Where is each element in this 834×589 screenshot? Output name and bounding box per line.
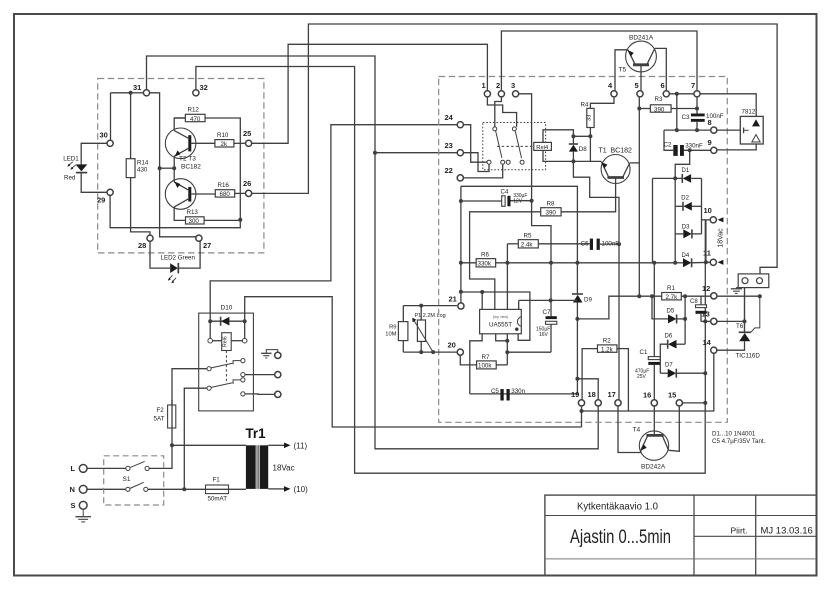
- wire R4 bottom to emitter rail: [589, 128, 591, 162]
- svg-text:R16: R16: [218, 182, 230, 189]
- wire 19 down to relay wire: [581, 403, 583, 427]
- wire secondary bottom arrow (10): [268, 488, 284, 490]
- resistor R14 430: [130, 93, 132, 159]
- svg-text:27: 27: [203, 241, 211, 250]
- svg-text:T5: T5: [619, 67, 627, 74]
- relay output terminal 1: [275, 352, 281, 358]
- svg-text:R14: R14: [137, 160, 149, 167]
- svg-text:22: 22: [445, 166, 453, 175]
- transistor T1 BC182: [601, 155, 630, 184]
- svg-text:2: 2: [496, 81, 500, 90]
- svg-text:2.4k: 2.4k: [521, 242, 534, 249]
- svg-text:330nF: 330nF: [685, 143, 703, 150]
- terminal 25: [246, 140, 252, 146]
- svg-text:28: 28: [138, 241, 146, 250]
- wire 20 to R7: [460, 355, 476, 365]
- wire C2 right to 9: [684, 149, 711, 151]
- capacitor C1 470uF: [653, 263, 655, 357]
- wire R8 left staircase to 555: [470, 212, 541, 310]
- relay mechanical link dashed: [225, 351, 227, 382]
- svg-text:5: 5: [635, 81, 639, 90]
- diode ladder D1: [653, 177, 683, 179]
- svg-text:50mAT: 50mAT: [208, 496, 228, 503]
- wire 8 row: [664, 129, 714, 131]
- svg-text:C6: C6: [581, 240, 589, 247]
- wire terminal 24 to relay D10 node: [210, 125, 460, 322]
- wire contact A2 to relay terminal 2: [245, 374, 275, 376]
- terminal 30: [107, 140, 113, 146]
- svg-text:(10): (10): [294, 485, 309, 494]
- diode D8: [572, 136, 574, 144]
- svg-text:12: 12: [702, 284, 710, 293]
- LED1 Red: [81, 143, 110, 164]
- svg-text:L: L: [71, 464, 76, 473]
- capacitor C7 150uF: [546, 316, 557, 319]
- relay switch B: [207, 386, 211, 390]
- wire L to switch: [87, 467, 126, 469]
- emitter node staircase to C6: [573, 161, 619, 244]
- node 6 branch dot: [675, 92, 679, 96]
- svg-text:18: 18: [588, 390, 596, 399]
- terminal 22: [457, 175, 463, 181]
- wire R12 left to T2 collector: [174, 117, 185, 119]
- ground at connector: [736, 288, 741, 289]
- wire 31 junction to R14 and node 30: [131, 92, 147, 94]
- terminal 29: [107, 189, 113, 195]
- regulator 7812: [700, 94, 756, 117]
- svg-text:12V: 12V: [513, 199, 523, 205]
- svg-text:9: 9: [708, 138, 712, 147]
- terminal 17: [615, 400, 621, 406]
- diode D7: [660, 372, 667, 374]
- svg-text:300: 300: [189, 218, 200, 225]
- wire relay common B down to N line: [184, 388, 207, 489]
- wire 26 up and over to connector: [249, 24, 778, 275]
- svg-text:C4: C4: [501, 189, 509, 196]
- wire D9 node down branch to 18: [576, 319, 578, 394]
- capacitor C5 330n: [470, 393, 578, 395]
- svg-text:330k: 330k: [478, 261, 492, 268]
- ground at relay terminal 1: [266, 350, 278, 354]
- svg-text:D5: D5: [667, 308, 675, 314]
- wire C7 bottom row: [507, 351, 551, 353]
- link 10 to 11: [705, 220, 707, 262]
- wire 15 row: [683, 402, 706, 404]
- resistor R5 2.4k: [518, 240, 538, 248]
- relay coil Rel4: [534, 142, 552, 150]
- terminal 18: [595, 400, 601, 406]
- svg-text:3: 3: [511, 81, 515, 90]
- svg-text:11: 11: [703, 249, 711, 258]
- wire R2 right down: [617, 349, 629, 411]
- terminal N: [79, 485, 87, 493]
- svg-text:8: 8: [708, 118, 712, 127]
- svg-text:Red: Red: [64, 175, 76, 182]
- svg-text:17: 17: [608, 390, 616, 399]
- wire R1 node down to D5: [684, 296, 686, 319]
- wire R13 right to node dot: [204, 219, 240, 221]
- wire 5 line down to R1 node: [638, 97, 640, 296]
- wire 23 to contact: [460, 153, 489, 172]
- gnd rail y262: [461, 262, 675, 264]
- wire 25 up and over to terminal 1: [249, 44, 488, 143]
- fuse F2 5AT: [168, 405, 176, 428]
- resistor R10 2k: [215, 140, 234, 147]
- svg-text:Tr1: Tr1: [246, 425, 266, 441]
- svg-text:D3: D3: [682, 224, 690, 230]
- svg-text:1: 1: [482, 81, 486, 90]
- wire D8 node to R4: [573, 135, 590, 137]
- dashed box main timer block: [439, 77, 728, 423]
- svg-text:R6: R6: [481, 252, 489, 259]
- terminal 6: [663, 91, 669, 97]
- wire C6 right to node: [600, 243, 619, 245]
- svg-text:430: 430: [137, 167, 148, 174]
- svg-text:D8: D8: [579, 146, 587, 153]
- diode D2: [674, 178, 676, 262]
- svg-text:15: 15: [668, 391, 676, 400]
- wire 10 branch: [702, 219, 711, 221]
- svg-text:Piirt.: Piirt.: [731, 526, 748, 536]
- wire 2 over the top to 7: [501, 31, 697, 94]
- svg-text:24: 24: [445, 113, 454, 122]
- wire relay D10 right down to terminal 19 row: [245, 297, 582, 427]
- switch S1 pole 2: [126, 487, 130, 491]
- wire D9 node staircase to R1: [577, 296, 661, 319]
- svg-text:N: N: [70, 485, 75, 494]
- svg-text:18Vac: 18Vac: [718, 228, 725, 248]
- terminal L: [79, 465, 87, 473]
- svg-text:F1: F1: [213, 477, 221, 484]
- wire 8 to 7812 input: [714, 129, 741, 131]
- svg-text:R5: R5: [524, 232, 532, 239]
- svg-text:21: 21: [449, 295, 457, 304]
- right column D1 to D3: [701, 178, 703, 234]
- svg-text:100k: 100k: [478, 363, 492, 370]
- svg-text:390: 390: [654, 106, 665, 113]
- svg-text:C7: C7: [543, 309, 551, 316]
- ground at S: [82, 509, 84, 516]
- svg-text:LED2 Green: LED2 Green: [161, 254, 196, 261]
- svg-text:UA555T: UA555T: [489, 321, 512, 328]
- terminal 10 with arrow: [710, 217, 716, 223]
- svg-text:Rel6: Rel6: [223, 336, 229, 347]
- wire T1 base down to R8: [561, 178, 616, 212]
- svg-text:D4: D4: [682, 253, 690, 259]
- resistor R6 330k: [476, 259, 496, 267]
- relay output terminal 2: [275, 372, 281, 378]
- switch S1 pole 1: [126, 466, 130, 470]
- dashed box LED driver block: [98, 79, 264, 253]
- terminal 28: [147, 235, 153, 241]
- diode D9: [572, 293, 583, 295]
- relay contacts dotted box: [483, 123, 546, 170]
- potentiometer P1 2.2M Log: [417, 320, 425, 341]
- dashed box S1: [104, 456, 164, 505]
- svg-text:1.2k: 1.2k: [601, 346, 614, 353]
- svg-text:P1 2.2M Log: P1 2.2M Log: [415, 313, 446, 319]
- svg-text:T4: T4: [633, 427, 641, 434]
- wire 555 output row: [519, 299, 578, 301]
- svg-text:23: 23: [445, 141, 453, 150]
- wire left rail 22 to 21: [460, 186, 462, 302]
- resistor R2 1.2k: [597, 345, 617, 352]
- terminal 3: [513, 91, 519, 97]
- terminal 15: [676, 400, 682, 406]
- transistor T3 BC182: [165, 179, 196, 210]
- wire 32 up and over down to terminal 15 rail: [196, 67, 705, 474]
- svg-text:R7: R7: [482, 354, 490, 361]
- wire 6 to 7: [666, 93, 697, 95]
- transistor T2 BC182: [165, 128, 196, 159]
- wire R5 left to 555 pin: [507, 243, 518, 245]
- svg-text:R1: R1: [667, 285, 675, 292]
- diode D4: [675, 262, 683, 264]
- wire top link to D9 cathode: [461, 186, 578, 294]
- svg-text:31: 31: [133, 83, 141, 92]
- diode D6: [668, 340, 676, 349]
- svg-text:LED1: LED1: [63, 156, 79, 163]
- svg-text:Ajastin 0...5min: Ajastin 0...5min: [570, 526, 671, 548]
- wire 9 node staircase to D1: [675, 150, 690, 178]
- wire node23 branch to terminal 23: [375, 152, 460, 154]
- diode D3: [675, 233, 683, 235]
- terminal 23: [457, 150, 463, 156]
- svg-text:T2 T3: T2 T3: [179, 156, 196, 163]
- wire secondary top arrow (11): [268, 444, 284, 446]
- LED1 emission arrows: [72, 165, 76, 169]
- resistor R3 390: [650, 105, 671, 112]
- wire R10 to terminal 25: [234, 142, 249, 144]
- svg-text:C3: C3: [682, 114, 690, 121]
- 555 pins bottom: [470, 334, 482, 394]
- wire C6 node down to terminal 17: [618, 244, 620, 403]
- svg-text:BC182: BC182: [181, 164, 201, 171]
- wire 21 row loop: [461, 292, 530, 340]
- svg-text:D2: D2: [681, 195, 689, 201]
- svg-text:2k: 2k: [221, 141, 228, 148]
- terminal 4: [611, 91, 617, 97]
- wire 22 to contact: [460, 164, 502, 178]
- svg-text:BD242A: BD242A: [641, 464, 666, 471]
- svg-text:C5 4.7µF/35V Tant.: C5 4.7µF/35V Tant.: [712, 438, 766, 445]
- terminal 20: [457, 349, 463, 355]
- svg-text:13: 13: [702, 310, 710, 319]
- node 31 dot: [129, 91, 133, 95]
- capacitor C3 100nF: [691, 114, 705, 117]
- svg-text:470: 470: [190, 116, 201, 123]
- wire 7 down to C3: [696, 94, 698, 114]
- svg-text:29: 29: [97, 196, 105, 205]
- wire D1 column to rail: [652, 178, 654, 262]
- svg-text:MJ 13.03.16: MJ 13.03.16: [761, 526, 813, 537]
- wire 1 staircase to relay contact: [487, 94, 516, 127]
- emitter link dots: [158, 166, 162, 170]
- svg-text:BD241A: BD241A: [629, 35, 654, 42]
- wire F2 node to transformer primary top: [172, 444, 246, 446]
- wire R16 to terminal 26: [235, 192, 249, 194]
- resistor R4 33: [590, 94, 614, 109]
- node C4 left dot: [459, 199, 463, 203]
- svg-text:D10: D10: [221, 305, 233, 312]
- svg-text:R10: R10: [217, 132, 229, 139]
- terminal S: [79, 501, 87, 509]
- svg-text:7812: 7812: [742, 109, 756, 116]
- svg-text:S: S: [71, 501, 76, 510]
- svg-text:16: 16: [643, 391, 651, 400]
- svg-text:10M: 10M: [385, 332, 396, 338]
- svg-text:TIC116D: TIC116D: [736, 353, 761, 360]
- svg-text:D6: D6: [665, 334, 673, 340]
- terminal 32: [193, 90, 199, 96]
- resistor R13 300: [186, 217, 205, 224]
- wire 2 to relay contact: [495, 97, 502, 127]
- relay coil Rel4 dashed link: [497, 145, 534, 147]
- capacitor C4 330uF: [461, 200, 502, 202]
- wire switch to F1: [148, 488, 204, 490]
- svg-text:T6: T6: [736, 323, 744, 330]
- wire F2 node down to switch S1: [149, 445, 172, 468]
- svg-text:25V: 25V: [637, 374, 647, 380]
- terminal 7: [694, 91, 700, 97]
- svg-text:33: 33: [587, 115, 593, 121]
- terminal 19: [578, 400, 584, 406]
- wire relay common A to fuse F2: [172, 369, 207, 405]
- svg-text:20: 20: [448, 341, 456, 350]
- node R3 left dot: [637, 107, 641, 111]
- terminal 24: [457, 122, 463, 128]
- svg-text:R9: R9: [389, 325, 396, 331]
- capacitor C8: [696, 305, 707, 308]
- capacitor C2 330nF: [673, 145, 677, 156]
- svg-text:25: 25: [243, 129, 251, 138]
- terminal 31: [143, 90, 149, 96]
- svg-text:BC182: BC182: [611, 148, 633, 155]
- svg-text:R12: R12: [188, 107, 200, 114]
- terminal 16: [651, 400, 657, 406]
- title block: [545, 495, 816, 575]
- capacitor C6 100nF: [590, 239, 593, 250]
- diode D5: [652, 296, 668, 319]
- wire C4 right staircase to C7 rail: [511, 200, 532, 202]
- svg-text:D1: D1: [682, 168, 690, 174]
- svg-text:R8: R8: [547, 201, 555, 208]
- fuse F1 50mAT: [206, 485, 229, 494]
- svg-text:330n: 330n: [511, 388, 525, 395]
- svg-text:18Vac: 18Vac: [273, 464, 295, 473]
- right bus 10 to 15: [704, 220, 706, 403]
- relay contact switch 1: [493, 127, 497, 131]
- resistor R1 2.7k: [662, 293, 682, 300]
- wire R14 bottom to terminal 28: [131, 178, 150, 239]
- svg-text:680: 680: [220, 191, 231, 198]
- wire N to switch: [87, 488, 126, 490]
- connector box: [738, 274, 769, 288]
- 555 pins top: [481, 292, 483, 309]
- svg-text:C1: C1: [640, 349, 648, 356]
- svg-text:T1: T1: [599, 148, 607, 155]
- resistor R7 100k: [477, 361, 497, 369]
- thyristor T6 TIC116D: [744, 288, 746, 333]
- svg-text:R3: R3: [655, 96, 663, 103]
- svg-text:26: 26: [243, 179, 251, 188]
- svg-text:32: 32: [200, 83, 208, 92]
- svg-text:10: 10: [704, 206, 712, 215]
- wire 7812 output to 9: [717, 144, 756, 150]
- svg-text:5AT: 5AT: [154, 416, 165, 423]
- svg-text:14: 14: [703, 338, 712, 347]
- timer UA555T: [480, 309, 522, 333]
- transistor T4 BD242A: [639, 431, 668, 460]
- svg-text:Rel4: Rel4: [536, 145, 549, 151]
- terminal 21: [458, 303, 464, 309]
- emitter rail to T1: [573, 160, 601, 162]
- LED2 emission arrows: [169, 275, 173, 279]
- svg-text:R2: R2: [603, 337, 611, 344]
- terminal 27: [196, 235, 202, 241]
- svg-text:S1: S1: [123, 476, 131, 483]
- svg-text:D9: D9: [584, 297, 592, 304]
- terminal 11 with arrow: [710, 259, 716, 265]
- wire R1 right to 12: [681, 295, 710, 297]
- terminal 13: [711, 318, 717, 324]
- transistor T5 BD241A: [626, 41, 657, 72]
- svg-text:6: 6: [661, 81, 665, 90]
- relay switch A: [207, 367, 211, 371]
- wire 31 up and over to node 23 and terminal 18: [147, 56, 599, 449]
- terminal 5: [637, 91, 643, 97]
- LED2 Green: [150, 238, 170, 268]
- relay coil Rel6: [209, 321, 211, 338]
- wire R2 left to 19: [582, 349, 597, 403]
- terminal 8: [711, 127, 717, 133]
- wire 6 branch down to 8 row: [676, 94, 678, 130]
- resistor R16 680: [215, 190, 234, 197]
- svg-text:390: 390: [546, 210, 557, 217]
- svg-text:Kytkentäkaavio 1.0: Kytkentäkaavio 1.0: [577, 501, 658, 513]
- wire C2 left leg: [664, 130, 673, 150]
- wire 13 row: [701, 320, 711, 322]
- node D8 bottom dot: [571, 159, 575, 163]
- wire Rel4 loop top: [543, 130, 573, 143]
- node N dot: [182, 487, 186, 491]
- svg-text:19: 19: [571, 390, 579, 399]
- wire contact B2 to relay terminal 3: [245, 393, 275, 396]
- terminal 26: [246, 190, 252, 196]
- relay contact switch 2: [512, 127, 516, 131]
- terminal 1: [484, 91, 490, 97]
- svg-text:(11): (11): [294, 441, 308, 450]
- wire 12 row to gate node: [717, 295, 760, 297]
- relay output terminal 3: [275, 391, 281, 397]
- terminal 9: [711, 147, 717, 153]
- svg-text:R13: R13: [187, 209, 199, 216]
- diode D10: [210, 320, 245, 322]
- svg-text:D7: D7: [665, 363, 673, 369]
- svg-text:R4: R4: [581, 101, 589, 108]
- resistor R8 390: [541, 208, 561, 216]
- terminal 12: [711, 293, 717, 299]
- terminal 14: [711, 347, 717, 353]
- svg-text:16V: 16V: [539, 332, 549, 338]
- wire 3 down to C4 staircase: [516, 94, 532, 201]
- potentiometer P1 and R9 wires: [403, 351, 457, 353]
- node 23 branch dot: [373, 151, 377, 155]
- wire 24 to contact: [460, 125, 487, 163]
- svg-text:30: 30: [100, 131, 108, 140]
- resistor R12 470: [185, 114, 205, 121]
- relay box: [199, 313, 254, 411]
